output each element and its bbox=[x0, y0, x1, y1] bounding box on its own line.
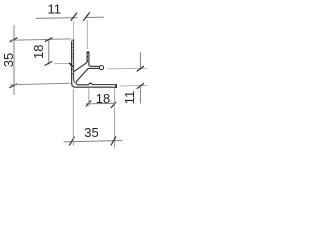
dimension 11 right: extension line top from bulb bbox=[107, 67, 148, 70]
svg-text:18: 18 bbox=[31, 45, 46, 59]
dimension 35 bottom: dim line bbox=[64, 141, 123, 142]
dimension 18 left: tick bottom bbox=[45, 61, 53, 65]
dimension 18 left: dim line vertical bbox=[48, 39, 50, 64]
dimension 35 bottom: tick right bbox=[111, 136, 116, 145]
profile inner leg right line with fillet to horizontal top bbox=[89, 52, 91, 66]
dimension 35 left: tick bottom bbox=[9, 84, 17, 88]
dimension 11 top: dim line right segment bbox=[86, 16, 104, 18]
profile outer leg beaded knots bbox=[71, 44, 73, 61]
svg-text:35: 35 bbox=[1, 53, 16, 67]
profile outer leg left line and flange bottom line bbox=[72, 41, 116, 87]
profile diagonal strut upper line bbox=[74, 62, 88, 72]
dimension 35 bottom: tick left bbox=[69, 137, 74, 146]
profile flange nub bbox=[89, 83, 93, 85]
extension line from flange nub down bbox=[88, 89, 90, 107]
dimension 11 top: tick left bbox=[71, 13, 77, 21]
extension line from profile corner down to 35-dim bbox=[72, 89, 74, 146]
svg-text:18: 18 bbox=[96, 91, 110, 106]
dimension 35 left: tick top bbox=[10, 38, 18, 42]
dimension 11 right: tick top bbox=[137, 66, 144, 71]
profile inner horizontal leg bottom line bbox=[88, 67, 99, 69]
dimension 18 bottom: dim line bbox=[86, 102, 115, 105]
dimension 11 top: dim line left segment bbox=[36, 17, 78, 20]
profile bulb at inner leg end bbox=[99, 66, 103, 70]
profile inner horizontal leg top line bbox=[91, 65, 100, 67]
profile inner leg top cap bead bbox=[87, 51, 89, 53]
dimension 18 bottom: tick left bbox=[86, 100, 91, 106]
dimension 11 right: extension line bottom from flange bbox=[120, 84, 148, 87]
extension line from 18-dim bottom to barb bbox=[54, 62, 70, 64]
extension line from top tick right down to inner leg bbox=[86, 21, 88, 50]
dimension 18 bottom: tick right bbox=[111, 102, 116, 108]
profile outer leg lower knots bbox=[71, 69, 73, 79]
profile outer leg right line bbox=[74, 40, 75, 83]
dimension 11 right: tick bottom bbox=[137, 83, 144, 88]
extension line bottom from 35-dim to profile corner bbox=[10, 83, 70, 84]
profile outer leg barb tick at 18 mark bbox=[70, 63, 73, 66]
profile outer leg top knot bbox=[73, 39, 75, 41]
profile inner leg left line bbox=[86, 52, 88, 62]
profile inner leg knots bbox=[87, 56, 88, 57]
extension line from flange end down to 35-dim bbox=[114, 89, 116, 149]
dimension 35 left: dim line bbox=[13, 25, 15, 95]
extension line from top tick left down to profile leg bbox=[72, 21, 74, 40]
svg-text:11: 11 bbox=[47, 2, 61, 17]
svg-text:35: 35 bbox=[84, 125, 98, 140]
dimension 11 top: tick right bbox=[83, 12, 89, 20]
extension line top from 35-dim to profile leg top bbox=[10, 39, 71, 40]
profile diagonal strut lower line curving into flange top bbox=[76, 68, 89, 85]
dimension 11 right: dim line upper segment bbox=[139, 52, 141, 69]
profile flange end cap bbox=[115, 84, 117, 88]
dimension 18 left: tick top bbox=[45, 38, 53, 42]
profile flange top line bbox=[92, 84, 115, 86]
svg-text:11: 11 bbox=[122, 91, 137, 105]
dimension 11 right: dim line lower segment bbox=[139, 86, 141, 104]
